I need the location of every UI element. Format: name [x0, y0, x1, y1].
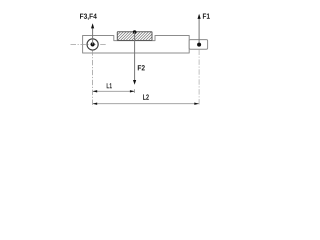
- right stub: [189, 40, 207, 50]
- dimension L2 left arrow: [93, 103, 98, 105]
- label L1: [107, 83, 112, 88]
- label F3,F4: [80, 14, 97, 20]
- horizontal centerline through pivot circle: [71, 44, 108, 46]
- vertical centerline / extension line below right stub: [198, 50, 200, 106]
- dimension L1 right arrow: [130, 90, 135, 92]
- shaft body with top notch: [83, 36, 190, 54]
- L1 extension tick at F2: [134, 89, 136, 93]
- stub load dot: [197, 43, 201, 47]
- label L2: [143, 94, 149, 99]
- dimension L1 line: [93, 90, 135, 92]
- force arrow F3,F4 head: [91, 23, 94, 28]
- label F2: [138, 65, 145, 70]
- dimension L2 line: [93, 103, 199, 105]
- force arrow F2 line: [134, 32, 136, 81]
- force arrow F3,F4 line: [92, 25, 94, 45]
- dimension L1 left arrow: [93, 90, 98, 92]
- dimension L2 right arrow: [194, 103, 199, 105]
- pivot center dot: [91, 42, 95, 46]
- block top dot: [133, 30, 137, 34]
- force arrow F2 head: [133, 80, 136, 85]
- force arrow F1 head: [198, 14, 201, 19]
- vertical centerline / extension line below pivot: [92, 50, 94, 107]
- label F1: [203, 14, 210, 19]
- pivot circle: [87, 39, 98, 50]
- hatched gauge block: [98, 26, 174, 46]
- force arrow F1 line: [198, 15, 200, 45]
